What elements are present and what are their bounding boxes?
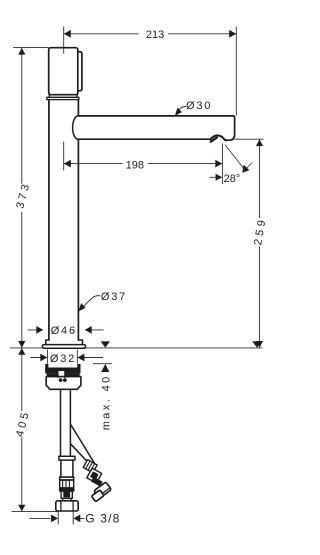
dim 259 vertical line xyxy=(259,139,261,348)
seal gasket (black) xyxy=(45,364,80,377)
handle side strip xyxy=(78,52,82,91)
hex nut (diagonal hose) xyxy=(91,482,111,502)
leader D30 xyxy=(176,106,186,113)
dim 259 top extension xyxy=(235,138,264,140)
handle knob xyxy=(49,48,78,95)
arrow G38 left xyxy=(51,515,58,523)
aerator detail at spout tip xyxy=(211,135,227,140)
body column xyxy=(48,100,50,340)
dim D46 line xyxy=(28,329,104,331)
deck surface mark 2 xyxy=(252,341,261,347)
spout junction arc xyxy=(73,116,79,139)
handle base taper xyxy=(49,95,77,97)
svg-text:213: 213 xyxy=(146,29,164,41)
arrow D32 right xyxy=(78,354,85,362)
arrow 198 right xyxy=(215,160,222,168)
arrow 373 down xyxy=(18,341,25,348)
svg-text:259: 259 xyxy=(252,216,269,246)
arrow 213 right xyxy=(229,30,236,38)
svg-text:405: 405 xyxy=(14,409,32,438)
svg-text:G 3/8: G 3/8 xyxy=(85,511,120,525)
arrow D37 leader xyxy=(78,303,85,311)
svg-text:max. 40: max. 40 xyxy=(101,374,113,430)
dim D32 line xyxy=(31,357,104,359)
diagonal hose xyxy=(71,425,94,465)
dim G3/8 extension lines xyxy=(58,511,73,524)
angle 28 arc-arrow tail xyxy=(244,162,253,171)
svg-text:28°: 28° xyxy=(224,173,241,185)
arrow D32 left xyxy=(40,354,47,362)
base escutcheon (D46) xyxy=(46,340,83,345)
supply pipe (straight) xyxy=(61,389,71,456)
diagonal hose crimp fitting xyxy=(83,460,102,486)
dim 373/405 vertical line xyxy=(21,48,23,512)
spout tube xyxy=(78,116,234,140)
svg-text:Ø46: Ø46 xyxy=(51,325,77,337)
svg-text:Ø32: Ø32 xyxy=(50,353,76,365)
arrow D46 left xyxy=(36,326,43,334)
dim D32 extension lines xyxy=(47,350,77,364)
arrow D46 right xyxy=(85,326,92,334)
straight hose body xyxy=(61,460,73,477)
collar ring under handle xyxy=(47,97,79,99)
dim 213 extension lines xyxy=(64,27,237,116)
arrow 259 up xyxy=(256,139,263,146)
dim 198 line xyxy=(64,163,223,165)
hex nut G3/8 (straight hose) xyxy=(56,501,78,511)
svg-text:Ø30: Ø30 xyxy=(186,100,212,112)
dim 198 extension lines xyxy=(64,142,223,185)
arrow 28deg right xyxy=(216,174,223,181)
collar ring on straight hose xyxy=(59,456,75,460)
svg-text:198: 198 xyxy=(126,159,144,171)
arrow 259 down xyxy=(256,341,263,348)
deck line right xyxy=(86,347,263,349)
angle 28 right-arrow tail xyxy=(210,176,222,178)
dim 213 line xyxy=(64,33,237,35)
arrowheads xyxy=(18,30,263,522)
base flange plate xyxy=(43,345,86,349)
arrow G38 right xyxy=(73,515,80,523)
arrow 405 down xyxy=(18,505,25,512)
svg-text:Ø37: Ø37 xyxy=(101,291,127,303)
straight hose crimp fitting xyxy=(60,477,74,501)
dim G3/8 line xyxy=(29,517,84,519)
dim 373 top extension xyxy=(13,47,49,49)
dim 405 bottom extension xyxy=(11,511,59,513)
angle 28 diagonal line xyxy=(225,145,245,171)
arrow 373 up xyxy=(18,48,25,55)
max40 lower extension xyxy=(93,363,112,365)
deck surface mark 1 xyxy=(101,341,110,347)
deck line left xyxy=(10,347,42,349)
mounting nut xyxy=(46,377,81,390)
svg-text:373: 373 xyxy=(14,180,32,209)
arrow 213 left xyxy=(64,30,71,38)
hose connector (white, two black holes) xyxy=(58,371,67,382)
arrow 28deg at diagonal xyxy=(242,165,249,173)
arrow 405 up xyxy=(18,348,25,355)
arrow 198 left xyxy=(64,160,71,168)
arrow D30 leader xyxy=(175,108,182,116)
max40 up arrow xyxy=(101,364,109,372)
leader D37 xyxy=(82,296,101,309)
